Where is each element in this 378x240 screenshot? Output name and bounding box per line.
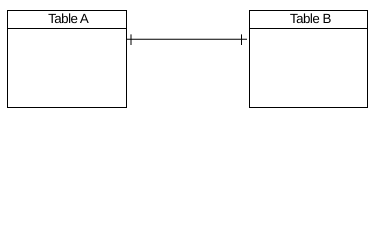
svg-text:Table B: Table B — [290, 11, 332, 26]
svg-text:Table A: Table A — [48, 11, 89, 26]
